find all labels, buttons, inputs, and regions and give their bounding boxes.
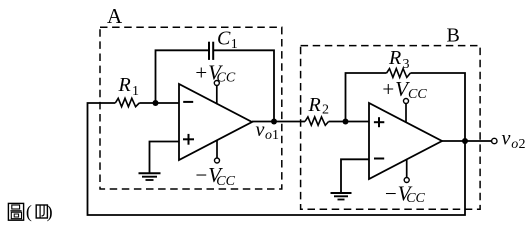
svg-text:2: 2 [519,137,526,152]
power -VCC terminal U2 [404,159,409,182]
dashed box A [100,27,282,189]
resistor R3 [387,69,411,78]
label -VCC (U1) [194,163,236,189]
terminal v_o2 [492,138,497,143]
dashed box B [301,46,481,210]
svg-text:CC: CC [408,87,427,102]
label +VCC (U2) [381,77,427,102]
label C1 [217,27,238,52]
node: U1 inverting input junction [153,100,159,106]
label -VCC (U2) [384,181,426,206]
svg-text:1: 1 [132,84,139,99]
svg-text:B: B [447,24,460,46]
capacitor C1 [209,42,213,60]
ground (U2 inverting input) [331,193,352,200]
wire: U1 non-inverting input to ground [150,142,180,173]
svg-text:(: ( [26,201,32,222]
svg-text:CC: CC [216,174,235,189]
svg-text:o: o [265,128,272,143]
svg-text:CC: CC [406,191,425,206]
svg-text:R: R [388,47,401,69]
wire: U2 inverting input to ground [341,159,369,192]
svg-text:v: v [502,128,511,150]
ground (U1 non-inverting input) [139,173,161,180]
svg-text:v: v [256,119,265,141]
power +VCC terminal U2 [404,99,409,123]
label 圖(四) figure caption [8,203,23,220]
svg-text:o: o [511,137,518,152]
svg-text:2: 2 [322,102,329,117]
label R3 [388,47,410,72]
resistor R1 [115,98,139,106]
node: v_o1 [271,119,277,125]
wire: U1 output to R2 [252,121,305,123]
label +VCC (U1) [194,61,236,86]
wire: C1 right plate down to output node v_o1 [213,50,274,121]
svg-text:R: R [308,94,321,116]
wire: R2 to U2 non-inverting input [329,121,369,123]
svg-text:): ) [47,201,53,222]
svg-text:C: C [217,27,231,49]
label v_o2 [502,128,526,153]
svg-text:1: 1 [272,128,279,143]
node: U2 non-inverting input junction [343,119,349,125]
svg-text:+V: +V [381,77,410,101]
wire: node up to C1 left plate [156,50,210,103]
wire: R1 to U1 inverting input [139,102,179,104]
label v_o1 [256,119,280,143]
svg-text:3: 3 [403,57,410,72]
resistor R2 [305,117,329,125]
svg-text:A: A [107,4,123,28]
svg-text:R: R [118,74,131,96]
op-amp U1 [179,84,252,160]
label R2 [308,94,330,117]
wire: R3 to U2 output node [410,73,465,141]
power -VCC terminal U1 [215,140,220,163]
svg-text:CC: CC [217,70,236,85]
node: v_o2 [462,138,468,144]
wire: node up to R3 [346,73,387,122]
wire: global feedback from v_o2 node down, along bottom, up to R1 input [88,103,466,215]
label R1 [118,74,140,99]
op-amp U2 [369,103,442,179]
wire: U2 output to terminal [442,140,492,142]
power +VCC terminal U1 [214,81,219,105]
